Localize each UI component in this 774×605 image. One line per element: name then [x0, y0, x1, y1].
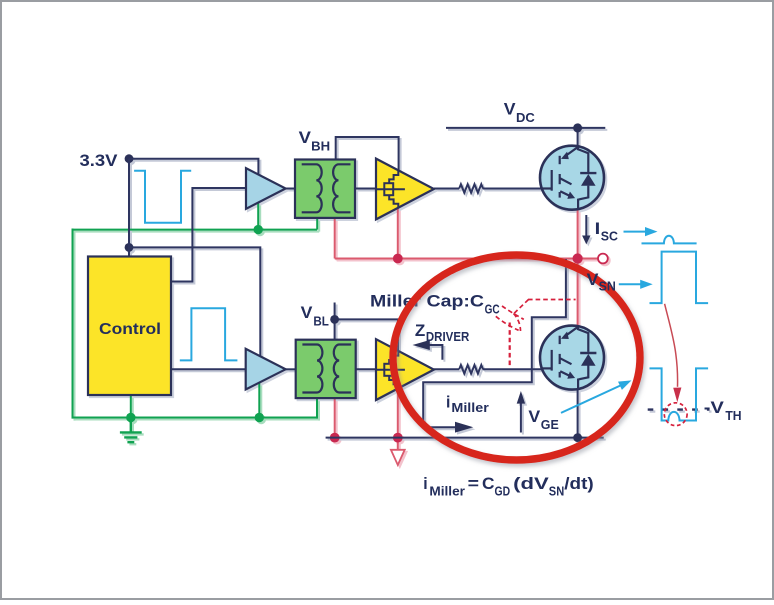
- node: red junction xfmr2 return: [330, 433, 340, 443]
- capacitor C_GC dashed elbow: [514, 300, 529, 314]
- wire: VDC rail: [446, 127, 605, 129]
- svg-text:Miller Cap:C: Miller Cap:C: [370, 293, 484, 311]
- wire: xfmr1 bottom-right pin to upper red bus: [334, 218, 336, 259]
- svg-text:C: C: [482, 475, 495, 493]
- arrow: I_SC to waveform: [624, 231, 647, 233]
- node: VDC junction: [573, 123, 582, 132]
- waveform: I_SC bump: [642, 236, 697, 244]
- waveform: V_GE pulse with miller bump: [650, 368, 709, 420]
- svg-text:I: I: [595, 220, 601, 238]
- capacitor C_GC plate B: [496, 316, 519, 330]
- svg-text:V: V: [301, 304, 313, 322]
- wire: VSN node to IGBT2 collector: [577, 259, 579, 327]
- i_Miller arrow: [423, 426, 456, 428]
- svg-text:Miller: Miller: [451, 400, 488, 415]
- phase-node open arrow: [391, 450, 405, 465]
- IGBT Q2: [540, 326, 604, 390]
- VSN open terminal: [598, 254, 608, 264]
- node: VBL junction: [330, 315, 339, 324]
- wire: VBL node to driver2 top: [335, 319, 398, 351]
- svg-text:V: V: [504, 101, 516, 119]
- wire: 3.3V branch to buffer2: [129, 247, 260, 356]
- capacitor C_GC dashed leg to gate: [509, 323, 511, 368]
- arrow: V_GE to waveform (diagonal): [561, 385, 621, 413]
- node: green junction lower amp ground: [255, 413, 264, 422]
- arrow: V_SN to waveform: [619, 283, 641, 285]
- wire: lower green bus: [73, 417, 318, 419]
- wire: xfmr2 bottom-right pin to lower bus: [334, 398, 336, 438]
- node: 3.3V branch junction: [125, 243, 134, 252]
- resistor R1: [459, 184, 483, 193]
- svg-text:V: V: [528, 408, 540, 426]
- V_TH threshold dashed line: [648, 408, 710, 410]
- svg-text:GD: GD: [495, 484, 511, 499]
- label V_SN (on top of ellipse): [587, 271, 616, 294]
- red highlight ellipse: [393, 255, 640, 460]
- waveform: lower control pulse: [180, 308, 238, 360]
- dashed highlight circle on miller bump: [664, 403, 687, 426]
- wire: lower driver amp bottom stub: [397, 387, 399, 437]
- svg-text:DC: DC: [516, 110, 535, 125]
- wire: miller current loop: [423, 259, 566, 424]
- wire: control lower output: [171, 368, 246, 370]
- svg-text:(dV: (dV: [513, 475, 549, 493]
- node: 3.3V junction: [125, 154, 134, 163]
- svg-text:=: =: [468, 475, 479, 493]
- wire: control box ground stub: [130, 395, 132, 418]
- node: VSN red junction: [573, 253, 583, 263]
- svg-text:BH: BH: [311, 139, 330, 154]
- wire: upper green bus: [73, 229, 318, 231]
- wire: VBL stub above node: [334, 303, 336, 340]
- svg-text:i: i: [423, 475, 427, 493]
- node: green junction upper bus: [254, 225, 263, 234]
- wire: xfmr2 to driver2: [356, 368, 377, 370]
- transformer T1: [295, 160, 355, 218]
- svg-text:/dt): /dt): [564, 475, 593, 493]
- wire: buffer2 to xfmr2: [285, 368, 296, 370]
- svg-text:i: i: [446, 394, 450, 412]
- wire: R2 to IGBT2 gate: [483, 368, 552, 370]
- ground: [120, 418, 142, 443]
- wire: VBH loop xfmr1 top to driver1 top: [336, 137, 399, 171]
- svg-text:3.3V: 3.3V: [80, 152, 118, 170]
- transformer T2: [296, 340, 356, 398]
- capacitor C_GC plate A: [502, 306, 524, 319]
- svg-text:SN: SN: [599, 279, 616, 294]
- node: red junction driver1 bottom: [393, 254, 403, 264]
- wire: upper driver amp bottom stub: [397, 208, 399, 259]
- wire: xfmr1 bottom-left pin to upper green bus: [316, 218, 318, 230]
- waveform: upper control pulse (inverted): [134, 171, 191, 223]
- node: red junction driver2 bottom: [393, 433, 403, 443]
- svg-text:Control: Control: [99, 321, 161, 338]
- control block U1: [88, 257, 171, 396]
- capacitor C_GC dashed link to collector: [528, 299, 576, 301]
- wire: control upper output: [171, 188, 246, 282]
- svg-text:DRIVER: DRIVER: [426, 329, 470, 344]
- wire: lower buffer amp ground stub: [258, 383, 260, 418]
- buffer amp U3: [246, 349, 286, 390]
- svg-text:TH: TH: [725, 408, 741, 423]
- svg-text:BL: BL: [313, 313, 329, 328]
- wire: left green vertical: [72, 229, 74, 419]
- red transition arrow (curved): [665, 304, 678, 387]
- svg-text:GE: GE: [541, 417, 559, 432]
- V_GE arrow: [520, 403, 522, 433]
- svg-text:GC: GC: [485, 302, 500, 317]
- wire: IGBT2 emitter to lower bus: [577, 389, 579, 437]
- wire: driver1 to gate resistor R1: [434, 188, 460, 190]
- wire: driver2 to gate resistor R2: [434, 368, 460, 370]
- buffer amp U2: [246, 168, 286, 209]
- waveform: V_SN pulse: [650, 252, 709, 304]
- wire: stub to phase arrow: [397, 438, 399, 450]
- svg-text:-V: -V: [704, 399, 724, 417]
- driver amp U5: [376, 339, 434, 400]
- wire: 3.3V rail to buffer1: [129, 159, 258, 176]
- Z_DRIVER arrow: [430, 345, 443, 360]
- I_SC arrow: [585, 215, 587, 236]
- capacitor C_GC curl: [514, 314, 521, 332]
- node: emitter bus junction: [573, 433, 582, 442]
- wire: xfmr2 bottom-left pin: [316, 398, 318, 419]
- wire: upper red bus to VSN: [335, 258, 598, 260]
- wire: xfmr1 to driver1: [355, 188, 376, 190]
- IGBT Q1: [540, 146, 604, 210]
- svg-text:V: V: [587, 271, 599, 289]
- driver amp U4: [376, 159, 434, 220]
- svg-text:V: V: [299, 129, 311, 147]
- wire: VDC to IGBT1 collector: [577, 128, 579, 147]
- svg-text:Miller: Miller: [429, 484, 465, 499]
- svg-text:SN: SN: [549, 484, 564, 499]
- wire: IGBT1 emitter to VSN node: [577, 209, 579, 258]
- wire: upper buffer amp ground stub: [257, 202, 259, 230]
- wire: 3.3V vertical to control: [128, 159, 130, 257]
- svg-text:Z: Z: [415, 322, 425, 340]
- wire: R1 to IGBT1 gate: [483, 188, 552, 190]
- wire: buffer1 to xfmr1: [285, 188, 295, 190]
- svg-text:SC: SC: [601, 229, 619, 244]
- node: green junction control ground: [126, 413, 135, 422]
- wire: lower emitter bus: [326, 437, 604, 439]
- diode D1: [581, 174, 596, 186]
- resistor R2: [459, 365, 483, 374]
